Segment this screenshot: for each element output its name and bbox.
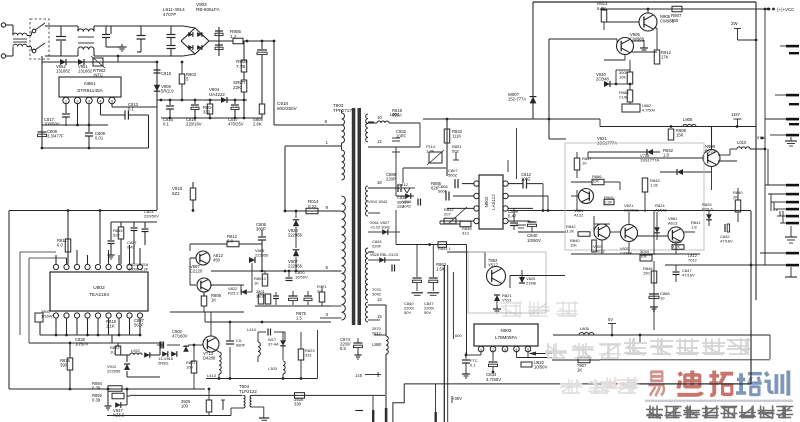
- svg-text:10K: 10K: [640, 254, 647, 259]
- wire y=271: [211, 270, 331, 272]
- diode: [654, 227, 660, 233]
- svg-text:C2120: C2120: [190, 269, 203, 274]
- diode V921 on wire: [588, 151, 660, 153]
- wire: [484, 252, 486, 268]
- emitter wire with coil L910: [718, 160, 737, 162]
- svg-text:1.2: 1.2: [230, 34, 237, 39]
- capacitor C868: [649, 293, 659, 295]
- svg-text:1.5K: 1.5K: [436, 267, 445, 272]
- wire top border: [533, 1, 756, 3]
- svg-text:6.0: 6.0: [57, 243, 63, 248]
- capacitor C806: [261, 230, 263, 236]
- wire long rail y=395.5 left: [130, 394, 242, 396]
- wire: [587, 152, 589, 158]
- svg-text:37-4A: 37-4A: [268, 342, 279, 347]
- vertical bus x=765: [764, 9, 766, 265]
- svg-text:222956: 222956: [255, 253, 269, 258]
- wire y=211 to pin9: [285, 210, 331, 212]
- wire y=168: [403, 167, 446, 169]
- svg-text:A1548: A1548: [655, 208, 667, 213]
- N903 pin 2: [490, 346, 496, 352]
- capacitor C826 and ground: [110, 222, 112, 240]
- bottom rail y=118: [161, 117, 262, 119]
- capacitor C820: [288, 271, 290, 277]
- wire y=139: [549, 138, 566, 140]
- thermistor RT902: [93, 58, 103, 66]
- subtitle glyph 3: [702, 406, 719, 419]
- svg-text:CU8: CU8: [619, 95, 628, 100]
- connector stub y=265: [786, 264, 799, 267]
- pin 2: [74, 97, 80, 103]
- svg-text:222956: 222956: [107, 369, 121, 374]
- resistor S808: [259, 104, 265, 114]
- svg-text:D4288: D4288: [203, 356, 216, 361]
- resistor R812: [227, 241, 239, 247]
- connector stub y=202: [786, 201, 799, 204]
- top pin wires: [55, 255, 57, 264]
- resistor R844: [438, 242, 447, 248]
- transformer primary winding mid: [342, 150, 345, 180]
- capacitor C840: [528, 221, 537, 223]
- vertical stub x=453: [452, 325, 454, 339]
- wire y=126: [600, 126, 756, 128]
- svg-text:220/16V: 220/16V: [186, 122, 202, 127]
- svg-text:L905: L905: [683, 117, 693, 122]
- watermark glyph di: [677, 371, 702, 395]
- capacitor C903: [105, 26, 107, 34]
- svg-text:2W: 2W: [731, 21, 738, 26]
- svg-text:(+)+VCC: (+)+VCC: [777, 7, 794, 12]
- box resistor U862: [622, 104, 640, 112]
- wire y=384 long right segment: [640, 383, 751, 385]
- resistor R903: [181, 62, 183, 74]
- svg-text:1.5: 1.5: [296, 316, 302, 321]
- capacitor FTC 0.1: [465, 352, 467, 359]
- svg-text:TEA2164: TEA2164: [89, 292, 109, 298]
- svg-text:22K: 22K: [233, 85, 242, 90]
- vertical x=317.5: [317, 330, 319, 379]
- svg-text:470/25V: 470/25V: [228, 122, 244, 127]
- wire y=39 from x=549: [549, 38, 617, 40]
- svg-text:10: 10: [377, 115, 382, 120]
- vertical x=533: [532, 2, 534, 119]
- wire: [639, 335, 641, 342]
- svg-text:U802: U802: [93, 285, 105, 291]
- svg-text:LA5112: LA5112: [491, 194, 496, 210]
- connector stub y=104: [789, 103, 799, 105]
- capacitor: [222, 400, 224, 410]
- svg-text:5.5: 5.5: [340, 346, 346, 351]
- ground marks under caps: [412, 292, 424, 294]
- switch contact top: [32, 29, 36, 33]
- ground right edge 2: [790, 226, 792, 237]
- ground: [465, 371, 467, 374]
- connector stub y=185: [786, 184, 799, 187]
- svg-text:0.1: 0.1: [163, 122, 169, 127]
- AC input terminal bottom: [1, 54, 5, 58]
- capacitor C847b: [675, 265, 677, 271]
- N903 pin 3: [502, 346, 508, 352]
- svg-text:152-777A: 152-777A: [508, 97, 526, 102]
- capacitor C825: [144, 222, 146, 228]
- svg-text:331: 331: [305, 353, 312, 358]
- svg-text:222956: 222956: [288, 233, 303, 238]
- svg-text:L78M05FA: L78M05FA: [495, 335, 518, 340]
- coil L905: [683, 124, 696, 126]
- bold stub 2: [372, 410, 374, 422]
- wire y=211 long: [508, 210, 751, 212]
- wire y=288: [509, 276, 511, 289]
- wire y=265: [665, 264, 751, 266]
- bottom pin rail 1: [40, 334, 139, 336]
- svg-text:50V: 50V: [404, 310, 411, 315]
- ground: [496, 301, 498, 306]
- diode V816b: [405, 193, 411, 199]
- capacitor C823: [35, 313, 43, 322]
- svg-text:6Z2: 6Z2: [172, 191, 180, 196]
- transistor N905: [639, 13, 657, 31]
- IC N951 STR81145A: [59, 77, 121, 97]
- svg-text:+30V: +30V: [452, 396, 462, 401]
- N951 loop left vertical: [41, 62, 43, 148]
- resistor R913 6.8K: [601, 10, 607, 22]
- svg-text:600: 600: [455, 333, 462, 338]
- subtitle glyph 5: [739, 406, 756, 419]
- coil L-W17: [258, 342, 260, 356]
- svg-text:10/50V: 10/50V: [75, 342, 88, 347]
- diode V822: [241, 289, 247, 295]
- svg-text:C4222: C4222: [593, 249, 606, 254]
- resistor R819: [111, 335, 113, 343]
- resistor R867: [574, 158, 580, 170]
- svg-text:21M6: 21M6: [526, 281, 537, 286]
- svg-text:4.7/50V: 4.7/50V: [642, 108, 656, 112]
- capacitor C917: [215, 44, 223, 46]
- transistor V884 A122: [579, 189, 594, 204]
- svg-text:Y513: Y513: [502, 298, 512, 303]
- capacitor C916: [218, 27, 220, 41]
- svg-text:L860: L860: [372, 342, 382, 347]
- misc wires in box: [571, 181, 592, 183]
- connector stub y=209: [786, 208, 799, 211]
- secondary taps: [368, 121, 374, 123]
- wire feeds to U802: [67, 211, 69, 265]
- capacitor C802: [159, 342, 161, 349]
- capacitor C905: [137, 25, 141, 27]
- rail y=378: [206, 378, 318, 380]
- wires drive area: [190, 243, 227, 245]
- svg-text:1K: 1K: [254, 281, 259, 286]
- svg-text:A613: A613: [668, 221, 678, 226]
- U802 top pins: [53, 264, 58, 269]
- svg-text:3.3/477F: 3.3/477F: [47, 134, 64, 139]
- N903 pin 5: [525, 346, 531, 352]
- svg-text:R29.2: R29.2: [228, 291, 239, 296]
- vertical pair x=444 x=448: [443, 265, 445, 422]
- vertical feedback wires: [507, 160, 509, 172]
- svg-text:1SS1777A: 1SS1777A: [640, 158, 659, 163]
- transistor VT13 D4288: [203, 336, 219, 352]
- svg-text:131882: 131882: [56, 69, 71, 74]
- caps: [273, 295, 279, 297]
- diode V930: [604, 81, 610, 87]
- resistor R823b: [300, 332, 302, 349]
- diode V947: [115, 402, 121, 408]
- vertical x=751: [750, 211, 752, 384]
- vertical x=453.4: [452, 272, 454, 339]
- pin 3: [86, 97, 92, 103]
- wire down: [790, 267, 792, 277]
- diode V914: [144, 352, 150, 358]
- resistor R806: [203, 292, 205, 296]
- transistor 7892 Y517: [487, 267, 506, 286]
- wire: [204, 312, 206, 322]
- svg-text:913: 913: [462, 231, 469, 236]
- svg-text:C818: C818: [161, 71, 172, 76]
- pin wire 4: [508, 220, 530, 222]
- diode V951: [78, 59, 84, 65]
- transformer primary winding top: [331, 124, 342, 126]
- wire y=360: [552, 359, 600, 361]
- subtitle glyph 0: [646, 406, 663, 419]
- diode V825: [521, 270, 523, 277]
- svg-text:A122: A122: [574, 213, 584, 218]
- wire to transformer pin8: [273, 41, 275, 125]
- resistors 3801 3802: [258, 294, 264, 304]
- capacitor C808c: [445, 192, 447, 201]
- wire pin1: [480, 352, 482, 355]
- left pin wires: [462, 183, 474, 185]
- svg-text:10/50V: 10/50V: [527, 238, 541, 243]
- N903 pin 4: [514, 346, 520, 352]
- wire y=232: [518, 231, 566, 233]
- svg-text:390: 390: [60, 363, 68, 368]
- svg-text:222956: 222956: [288, 264, 303, 269]
- resistor R3000: [615, 70, 617, 84]
- svg-text:111K: 111K: [452, 134, 461, 139]
- wire: [45, 25, 61, 27]
- bridge rectifier V903: [181, 28, 209, 54]
- svg-text:5V: 5V: [608, 317, 613, 322]
- svg-text:1157: 1157: [731, 112, 741, 117]
- diode V807: [293, 250, 299, 256]
- svg-text:L904: L904: [390, 112, 400, 117]
- svg-text:6.8K: 6.8K: [597, 6, 606, 11]
- resistor R014 0.22: [306, 208, 318, 214]
- svg-text:1K: 1K: [211, 298, 216, 303]
- capacitor C904: [110, 26, 112, 34]
- capacitor C-680F: [226, 340, 234, 342]
- connector stub y=53: [789, 52, 799, 54]
- bulk capacitor C918 600uF/250V: [261, 41, 263, 49]
- diode W907: [530, 97, 537, 104]
- pin 4: [97, 97, 103, 103]
- svg-text:0.47: 0.47: [508, 214, 517, 219]
- wire left bus: [156, 62, 158, 210]
- svg-text:5R(2.9: 5R(2.9: [161, 89, 174, 94]
- transformer T903 core: [352, 108, 356, 325]
- resistor R907 100: [672, 6, 682, 12]
- svg-text:560F: 560F: [438, 189, 448, 194]
- svg-text:18: 18: [377, 180, 382, 185]
- svg-text:3.2K: 3.2K: [566, 229, 575, 234]
- resistor R843: [642, 178, 648, 192]
- capacitor C812 100Z: [522, 179, 524, 189]
- ghost vertical: [419, 123, 421, 147]
- svg-text:TPF27176: TPF27176: [333, 108, 355, 113]
- subtitle glyph 1: [665, 406, 682, 419]
- capacitor: [304, 295, 312, 297]
- svg-text:L412: L412: [399, 182, 409, 187]
- svg-text:131882: 131882: [78, 69, 93, 74]
- svg-text:7012: 7012: [688, 258, 698, 263]
- svg-text:922: 922: [113, 233, 120, 238]
- svg-text:1c5: 1c5: [355, 373, 362, 378]
- wire transformer pin1: [285, 145, 331, 147]
- coil L922: [118, 354, 130, 356]
- connector stub y=216: [786, 215, 799, 218]
- svg-text:Y517: Y517: [488, 263, 498, 268]
- resistor R838: [460, 221, 471, 227]
- T904 windings: [244, 395, 246, 408]
- resistor R860: [672, 245, 684, 250]
- resistor R801C: [264, 271, 266, 274]
- svg-text:47/16V: 47/16V: [720, 239, 733, 244]
- capacitor C911: [170, 26, 172, 34]
- capacitor big: [289, 295, 298, 297]
- IC N902: [479, 175, 503, 229]
- svg-text:207: 207: [444, 212, 451, 217]
- transistor N909 B553: [703, 150, 720, 167]
- svg-text:TLP2122: TLP2122: [239, 389, 257, 394]
- connector stub y=119: [786, 118, 799, 121]
- capacitor C817: [234, 100, 236, 104]
- wire y=359: [600, 359, 770, 361]
- capacitor C802b: [157, 344, 164, 346]
- svg-text:6.8: 6.8: [227, 239, 233, 244]
- svg-text:L805: L805: [580, 326, 590, 331]
- ground: [259, 417, 269, 419]
- wire y=244.5: [396, 244, 467, 246]
- watermark glyph pei: [736, 373, 762, 396]
- resistor R00-330: [209, 100, 211, 104]
- svg-text:L922: L922: [131, 348, 141, 353]
- resistor R886: [592, 179, 604, 185]
- trimmer arrow: [449, 207, 467, 223]
- line filter L951: [12, 25, 14, 35]
- bold stub: [385, 408, 388, 422]
- svg-text:0.39: 0.39: [92, 398, 101, 403]
- svg-text:1.0Z: 1.0Z: [672, 244, 681, 249]
- connector stub y=194: [786, 193, 799, 196]
- vertical x=230: [229, 322, 231, 340]
- AC input terminal top: [1, 23, 5, 27]
- svg-text:0.47: 0.47: [127, 245, 136, 250]
- transistor V881 A613: [668, 227, 684, 243]
- watermark glyph xun: [764, 371, 788, 396]
- svg-text:R844 1: R844 1: [438, 246, 452, 251]
- capacitor C815: [169, 100, 171, 105]
- diode string V913-V816: [159, 345, 161, 355]
- svg-text:SC2012: SC2012: [624, 208, 639, 213]
- vertical border x=756: [755, 2, 757, 300]
- wire long rail y=395.5 right: [252, 394, 386, 396]
- svg-text:100: 100: [181, 404, 189, 409]
- svg-text:R26.6: R26.6: [702, 207, 713, 212]
- vertical x=258: [257, 332, 259, 342]
- IC U802 TEA2164: [50, 272, 148, 311]
- pot P114: [429, 152, 442, 163]
- resistor R825 diode: [706, 214, 712, 220]
- mains switch S901 dashed box: [30, 19, 49, 59]
- vertical x=285 top: [284, 332, 286, 342]
- wire DC rail: [209, 40, 233, 42]
- wire: [113, 25, 137, 27]
- wire horizontal y=100: [157, 99, 247, 101]
- svg-text:25V: 25V: [397, 204, 404, 209]
- svg-text:10/50V: 10/50V: [295, 275, 308, 280]
- T904 bottom wires: [231, 407, 244, 409]
- pin 1: [63, 97, 69, 103]
- svg-text:UA4222: UA4222: [209, 92, 225, 97]
- bold stub 3: [435, 412, 437, 422]
- wire pin5: [527, 352, 529, 358]
- diode R821 Y513: [494, 295, 500, 301]
- capacitor C224: [267, 329, 269, 336]
- wire: [127, 376, 160, 378]
- ground: [643, 40, 645, 45]
- svg-text:10: 10: [660, 296, 665, 301]
- svg-text:C4988: C4988: [620, 251, 633, 256]
- corner jog bottom center: [393, 384, 404, 422]
- svg-text:17K: 17K: [661, 55, 669, 60]
- transistor V898 A813: [196, 251, 210, 265]
- svg-text:220P: 220P: [386, 177, 396, 182]
- switch contact bottom: [32, 49, 36, 53]
- transformer primary winding bottom: [342, 196, 346, 320]
- wire left edge vertical: [8, 211, 10, 390]
- IC right pins: [503, 181, 508, 186]
- ground: [107, 396, 109, 403]
- wire startup row: [41, 56, 43, 62]
- resistor R905b: [604, 199, 614, 205]
- svg-text:330: 330: [294, 402, 302, 407]
- connector stub y=95: [786, 94, 799, 97]
- svg-text:13: 13: [377, 297, 382, 302]
- transistor V905: [617, 38, 634, 55]
- subtitle glyph 2: [683, 406, 700, 419]
- svg-text:2.2: 2.2: [317, 289, 323, 294]
- wire top y=119: [423, 118, 600, 120]
- subtitle glyph 6: [758, 406, 775, 419]
- capacitor U822: [521, 362, 532, 367]
- svg-text:380P: 380P: [256, 227, 266, 232]
- current sense resistors R894 R892: [107, 388, 110, 391]
- wire: [111, 221, 157, 223]
- svg-text:1.0Z: 1.0Z: [650, 183, 659, 188]
- resistor R925: [208, 389, 210, 400]
- svg-text:L413: L413: [207, 373, 217, 378]
- resistor R832: [444, 218, 456, 224]
- diode V952: [60, 59, 66, 65]
- svg-text:47/160V: 47/160V: [172, 334, 188, 339]
- wire feed from AC rail: [117, 56, 119, 62]
- svg-text:220/50V: 220/50V: [144, 214, 159, 219]
- resistor R988: [627, 90, 633, 102]
- svg-text:220F: 220F: [372, 244, 382, 249]
- svg-text:4.7/50V: 4.7/50V: [486, 377, 501, 382]
- wire to bulk cap: [243, 40, 274, 42]
